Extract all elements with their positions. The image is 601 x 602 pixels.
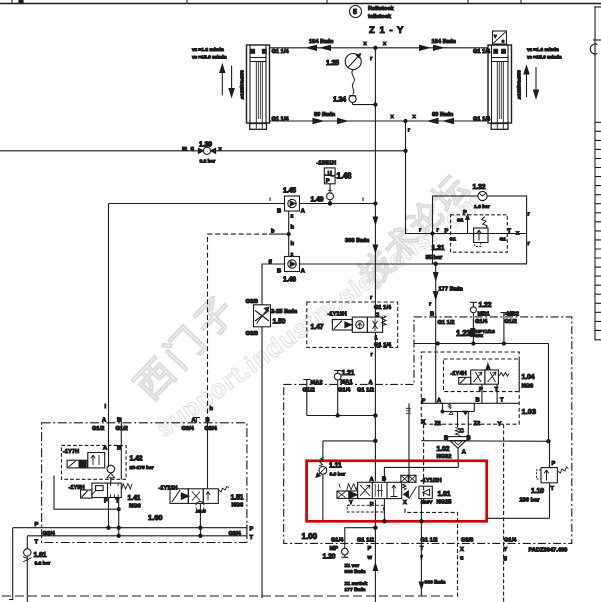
svg-text:ø125/90x550: ø125/90x550 <box>517 70 523 99</box>
wire T rail <box>27 533 253 546</box>
wire T return to tank <box>419 499 445 596</box>
wire 1.39 horizontal line <box>0 146 406 153</box>
svg-text:T: T <box>35 540 39 546</box>
svg-text:0.3 bar: 0.3 bar <box>330 472 346 478</box>
svg-text:X: X <box>403 500 407 506</box>
speed sensor v/s on right cylinder <box>493 31 507 44</box>
check valve 1.61 (0.2 bar) <box>23 536 51 602</box>
sheet reference ladder right edge <box>590 6 601 341</box>
manifold 1.00 boundary (dash-dot) <box>284 317 572 544</box>
svg-text:1.03: 1.03 <box>522 407 537 416</box>
test point 1.20 MP <box>341 528 375 558</box>
valve block 1.60 enclosure <box>42 423 247 543</box>
svg-text:vS =15.0 m/min: vS =15.0 m/min <box>527 55 562 61</box>
pressure switch 1.48 (-1B51H) <box>317 161 353 193</box>
test point 1.49 <box>311 193 334 205</box>
logic block 1.03 ports line <box>421 398 519 428</box>
svg-text:A: A <box>462 450 466 456</box>
svg-text:-1B51H: -1B51H <box>317 161 337 167</box>
coupling 1.39 (0.2 bar) <box>198 142 215 165</box>
valve group 1.03/1.04 dashed enclosure <box>421 352 536 424</box>
svg-text:MP: MP <box>330 546 339 552</box>
svg-text:1.49: 1.49 <box>311 197 324 204</box>
pilot line z-h between 1.45 and 1.46 <box>287 211 294 258</box>
svg-text:G3/8: G3/8 <box>246 299 258 305</box>
svg-text:P: P <box>463 210 467 216</box>
svg-text:1.00: 1.00 <box>302 532 318 541</box>
svg-text:-MB2: -MB2 <box>505 311 519 317</box>
svg-text:G1: G1 <box>457 218 464 224</box>
pilot valve 1.04 (-1Y4H) <box>451 363 510 404</box>
svg-text:1.42: 1.42 <box>130 456 143 463</box>
wire MA line <box>307 415 376 417</box>
svg-text:h: h <box>210 406 214 412</box>
svg-text:89 l/min: 89 l/min <box>314 112 336 118</box>
svg-text:A: A <box>437 398 441 404</box>
svg-text:Z1 zurück: Z1 zurück <box>345 581 368 587</box>
wire tank return into red area <box>486 517 550 519</box>
svg-text:-1Y13H: -1Y13H <box>328 312 347 318</box>
svg-text:g: g <box>504 556 508 562</box>
svg-text:1.10: 1.10 <box>531 488 544 495</box>
svg-text:PADZ3047.400: PADZ3047.400 <box>529 548 568 554</box>
svg-text:368 l/min: 368 l/min <box>345 569 366 575</box>
svg-text:B: B <box>476 398 480 404</box>
pressure gauge 1.25 <box>326 54 361 95</box>
machine boundary bottom dashed <box>2 595 458 597</box>
pilot operated check valve 1.46 <box>269 257 305 284</box>
svg-text:5: 5 <box>353 9 357 16</box>
svg-text:1.20: 1.20 <box>323 554 336 561</box>
flow arrow 368 l/min on main vertical <box>345 217 378 252</box>
node 5 sheet title <box>350 6 405 37</box>
svg-text:G1 1/4: G1 1/4 <box>272 117 290 123</box>
svg-text:z: z <box>291 214 294 220</box>
svg-text:±10V: ±10V <box>421 499 433 505</box>
wire P to tank left <box>9 528 13 600</box>
svg-text:G3/8: G3/8 <box>461 537 473 543</box>
cylinder left speed annotation <box>192 47 234 97</box>
svg-text:1.51: 1.51 <box>231 495 244 502</box>
wire 1.46 A to 1.31 tank line <box>300 263 527 265</box>
shutoff valve 1.47 (-1Y13H) <box>307 302 398 349</box>
svg-text:G1 1/4: G1 1/4 <box>473 49 491 55</box>
proportional pressure reducing valve 1.42 (-1Y7H) <box>62 445 154 479</box>
svg-text:P: P <box>250 527 254 533</box>
svg-text:G1 1/4: G1 1/4 <box>272 49 290 55</box>
svg-text:G1/2: G1/2 <box>505 319 517 325</box>
svg-text:A: A <box>369 380 373 386</box>
svg-text:P: P <box>445 229 449 235</box>
svg-text:NG32: NG32 <box>437 454 452 460</box>
pilot operated check valve 1.45 <box>277 188 305 215</box>
svg-text:MAX: MAX <box>476 334 484 338</box>
svg-text:184 l/min: 184 l/min <box>432 39 457 45</box>
wire P pilot from 1.03 <box>405 403 458 596</box>
svg-text:1.32: 1.32 <box>473 184 486 191</box>
flow annotation Z1 vor <box>345 563 378 593</box>
svg-text:G1/2: G1/2 <box>303 388 315 394</box>
svg-text:A: A <box>192 417 196 423</box>
svg-text:Y: Y <box>504 547 508 553</box>
manifold bottom port row <box>302 532 568 562</box>
svg-text:NG6: NG6 <box>522 384 534 390</box>
svg-text:P: P <box>326 178 330 184</box>
wire b pilot line (dashed to x=207.5) <box>105 229 289 418</box>
svg-text:1.02: 1.02 <box>437 446 450 453</box>
svg-text:A: A <box>102 417 106 423</box>
svg-text:X: X <box>460 547 464 553</box>
svg-text:Y: Y <box>498 422 502 428</box>
svg-text:T: T <box>500 398 504 404</box>
svg-text:h: h <box>291 241 295 247</box>
svg-text:368 l/min: 368 l/min <box>345 238 370 244</box>
svg-text:G1 1/2: G1 1/2 <box>357 537 374 543</box>
svg-text:1.61: 1.61 <box>34 552 47 559</box>
svg-text:1: 1 <box>375 336 378 342</box>
svg-text:G1/4: G1/4 <box>338 388 351 394</box>
svg-text:u: u <box>460 556 464 562</box>
cartridge valve 1.02 NG32 with pilot bridge <box>437 403 477 467</box>
svg-text:s: s <box>502 39 505 44</box>
svg-text:q: q <box>191 146 195 152</box>
svg-text:1.04: 1.04 <box>522 374 535 381</box>
svg-text:T: T <box>495 387 499 393</box>
svg-text:A: A <box>301 269 305 275</box>
svg-text:-1Y7H: -1Y7H <box>63 449 79 455</box>
test point 1.22 MB1 <box>470 302 492 345</box>
svg-text:1.50: 1.50 <box>273 319 286 326</box>
shutoff valve 1.51 (-1Y11H) <box>159 486 244 538</box>
svg-text:0.2 bar: 0.2 bar <box>35 561 51 567</box>
svg-text:G1/4: G1/4 <box>504 537 517 543</box>
svg-text:G1/4: G1/4 <box>475 319 488 325</box>
svg-text:2-25 l/min: 2-25 l/min <box>271 309 298 315</box>
svg-text:G1: G1 <box>500 237 507 243</box>
wire 1.42/1.41 internal piping <box>54 476 120 538</box>
wire P supply to 1.10 <box>421 344 550 468</box>
1.60 top ports <box>92 417 218 489</box>
svg-text:P: P <box>552 461 556 467</box>
svg-text:1.21: 1.21 <box>342 370 355 377</box>
relief valve block 1.31 (35 bar) <box>426 196 531 264</box>
svg-text:1.60: 1.60 <box>148 513 163 522</box>
check valve 1.32 (1.0 bar) <box>473 184 490 210</box>
wire 1.45 A-B line <box>109 198 376 204</box>
plug 1.23 NPT1/16 <box>456 329 495 338</box>
svg-text:1.01: 1.01 <box>438 491 451 498</box>
wire 89 l/min bottom line <box>270 112 489 134</box>
svg-text:A: A <box>103 446 107 452</box>
svg-text:MB1: MB1 <box>478 311 490 317</box>
svg-text:ø125/90x550: ø125/90x550 <box>240 70 246 99</box>
svg-text:w: w <box>367 555 373 561</box>
svg-text:1.48: 1.48 <box>337 172 353 181</box>
test point 1.24 <box>333 95 377 106</box>
svg-text:-1Y4H: -1Y4H <box>451 371 467 377</box>
svg-text:A: A <box>301 209 305 215</box>
svg-text:G1/2: G1/2 <box>92 426 104 432</box>
svg-text:Z 1 - Y: Z 1 - Y <box>369 25 404 36</box>
wire P rail <box>13 522 254 537</box>
wire vertical x=405.5 to valve 1.31 <box>404 119 433 233</box>
reducing valve 1.41 (-1Y9H) <box>69 478 141 510</box>
proportional valve 1.01 (-1Y1/2H, NG25) <box>337 475 451 512</box>
cylinder left (tailstock cylinder) <box>240 45 290 129</box>
svg-text:1.11: 1.11 <box>329 463 342 470</box>
svg-text:NG6: NG6 <box>129 504 141 510</box>
svg-text:Z2: Z2 <box>474 421 481 427</box>
wire left work line x=108.5 down to 1.60 <box>108 204 110 468</box>
svg-text:m: m <box>182 146 187 152</box>
cylinder right speed annotation <box>524 47 562 98</box>
svg-text:1.0 bar: 1.0 bar <box>474 204 490 210</box>
svg-text:1.31: 1.31 <box>432 245 445 252</box>
svg-text:B: B <box>117 446 121 452</box>
relief valve 1.10 (230 bar) <box>520 461 569 518</box>
svg-text:G1 1/4: G1 1/4 <box>374 343 392 349</box>
svg-text:89 l/min: 89 l/min <box>432 112 454 118</box>
svg-text:1.46: 1.46 <box>283 277 296 284</box>
svg-text:1.22: 1.22 <box>479 302 492 309</box>
svg-text:NG25: NG25 <box>437 500 452 506</box>
svg-text:P: P <box>104 499 108 505</box>
svg-text:G1 1/2: G1 1/2 <box>438 320 455 326</box>
svg-text:184 l/min: 184 l/min <box>309 39 334 45</box>
svg-text:177 l/min: 177 l/min <box>439 287 464 293</box>
svg-text:B: B <box>277 209 281 215</box>
svg-text:G1: G1 <box>450 237 457 243</box>
cylinder right (tailstock cylinder with speed sensor) <box>473 45 523 129</box>
svg-text:230 bar: 230 bar <box>520 498 541 504</box>
svg-text:1.25: 1.25 <box>326 60 339 67</box>
svg-text:vS =15.0 m/min: vS =15.0 m/min <box>192 55 227 61</box>
svg-text:G1 1/2: G1 1/2 <box>421 537 438 543</box>
svg-text:1.45: 1.45 <box>283 188 296 195</box>
svg-text:35 bar: 35 bar <box>426 255 444 261</box>
svg-text:B: B <box>277 269 281 275</box>
svg-text:NG6: NG6 <box>232 503 244 509</box>
test point 1.21 MA1 <box>334 370 374 417</box>
svg-text:1.41: 1.41 <box>128 495 141 502</box>
svg-text:tailstock: tailstock <box>368 14 392 20</box>
svg-text:P: P <box>35 522 39 528</box>
sheet top border <box>0 0 601 4</box>
svg-text:b: b <box>271 229 275 235</box>
svg-text:T: T <box>551 486 555 492</box>
svg-text:25-175 bar: 25-175 bar <box>130 465 154 471</box>
svg-text:vE =1.2 m/min: vE =1.2 m/min <box>527 47 559 53</box>
svg-text:G1 1/4: G1 1/4 <box>473 117 491 123</box>
svg-text:ø1.0: ø1.0 <box>196 509 206 515</box>
wire 1.46 B to flow control 1.50 <box>262 264 285 598</box>
svg-text:G1/4: G1/4 <box>331 537 344 543</box>
relief valve 1.11 (0.3 bar) <box>316 441 375 520</box>
svg-text:Reitstock: Reitstock <box>368 6 394 12</box>
wire B port elbow to 1.02 <box>383 467 459 523</box>
svg-text:vE =1.2 m/min: vE =1.2 m/min <box>192 47 224 53</box>
svg-text:T: T <box>420 546 424 552</box>
svg-text:177 l/min: 177 l/min <box>345 587 366 593</box>
svg-text:C: C <box>460 429 464 435</box>
svg-text:P: P <box>368 546 372 552</box>
svg-text:T: T <box>250 535 254 541</box>
svg-text:G1 1/4: G1 1/4 <box>374 305 392 311</box>
svg-text:368 l/min: 368 l/min <box>425 580 446 586</box>
wire 184 l/min top line <box>270 39 489 62</box>
svg-text:G3/8: G3/8 <box>246 331 258 337</box>
flow control valve 1.50 (2-25 l/min) <box>246 299 298 337</box>
svg-text:1.24: 1.24 <box>333 97 346 104</box>
svg-text:T: T <box>508 229 512 235</box>
wire main A-line vertical x=375 <box>370 46 377 602</box>
svg-text:h: h <box>291 225 295 231</box>
svg-text:z: z <box>291 252 294 258</box>
svg-text:P: P <box>422 399 426 405</box>
svg-text:Z1 vor: Z1 vor <box>345 563 360 569</box>
wire Y pilot dashed <box>503 424 505 602</box>
test point MA2 port <box>303 380 323 416</box>
svg-text:G3/4: G3/4 <box>182 426 195 432</box>
svg-text:MA2: MA2 <box>311 380 323 386</box>
watermark <box>127 167 487 442</box>
red highlight box <box>307 461 487 522</box>
svg-text:G3/4: G3/4 <box>205 426 218 432</box>
svg-text:1.47: 1.47 <box>311 324 324 331</box>
svg-text:v: v <box>494 34 497 39</box>
flow arrow 177 l/min below 1.31 <box>429 262 463 403</box>
wire supply header y=343.5 <box>414 342 549 345</box>
svg-text:0.2 bar: 0.2 bar <box>200 159 216 165</box>
plugged port MB2 <box>500 311 519 345</box>
svg-text:B: B <box>117 417 121 423</box>
svg-text:G1 1/2: G1 1/2 <box>357 388 374 394</box>
svg-text:1.23: 1.23 <box>456 329 472 338</box>
